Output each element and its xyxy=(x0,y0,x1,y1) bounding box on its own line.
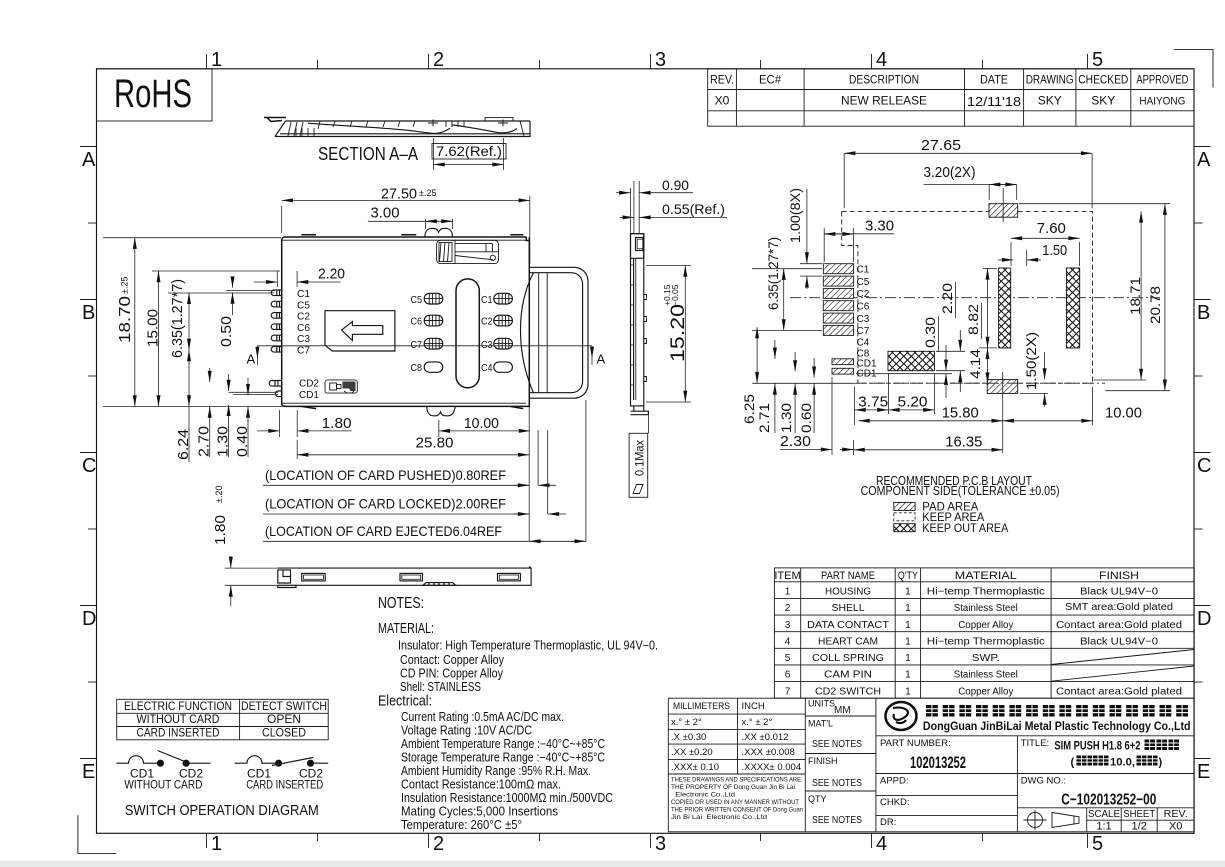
card guide box with arrow xyxy=(325,311,395,351)
scale sheet rev xyxy=(1088,809,1188,833)
svg-text:4: 4 xyxy=(876,833,887,855)
section spring arms xyxy=(308,123,450,133)
grid ticks top xyxy=(207,54,1088,69)
tolerance table texts xyxy=(671,701,801,773)
svg-text:A: A xyxy=(82,149,96,171)
svg-text:DATA CONTACT: DATA CONTACT xyxy=(807,620,889,631)
svg-text:MAT'L: MAT'L xyxy=(808,719,833,729)
svg-text:SKY: SKY xyxy=(1038,94,1062,108)
C pad labels xyxy=(857,265,877,380)
svg-text:SMT area:Gold plated: SMT area:Gold plated xyxy=(1065,602,1173,613)
svg-text:HAIYONG: HAIYONG xyxy=(1139,96,1185,108)
contact pins C1..C7 left xyxy=(229,288,320,401)
svg-text:C: C xyxy=(1197,455,1211,477)
svg-text:C2: C2 xyxy=(857,289,870,300)
border frame xyxy=(97,69,1195,834)
centerline dash-dot horizontal xyxy=(790,297,1160,299)
svg-text:QTY: QTY xyxy=(808,794,827,804)
grid ticks right xyxy=(1194,147,1211,759)
svg-text:MM: MM xyxy=(834,705,851,716)
svg-text:C8: C8 xyxy=(411,362,423,374)
svg-text:15.20: 15.20 xyxy=(668,304,689,362)
svg-text:3: 3 xyxy=(785,620,791,631)
dim 6.24 xyxy=(188,350,190,406)
svg-text:Insulator: High Temperature Th: Insulator: High Temperature Thermoplasti… xyxy=(398,639,658,653)
svg-text:1: 1 xyxy=(905,653,911,664)
svg-text:1.30: 1.30 xyxy=(778,403,794,433)
svg-text:4.14: 4.14 xyxy=(967,349,983,379)
svg-text:7.60: 7.60 xyxy=(1037,220,1066,237)
svg-text:(LOCATION OF CARD PUSHED)0.80R: (LOCATION OF CARD PUSHED)0.80REF xyxy=(265,467,506,483)
svg-text:16.35: 16.35 xyxy=(945,434,982,451)
svg-text:3: 3 xyxy=(655,833,666,855)
svg-text:C2: C2 xyxy=(481,316,493,328)
svg-text:ITEM: ITEM xyxy=(774,570,800,582)
svg-text:(LOCATION OF CARD EJECTED6.04R: (LOCATION OF CARD EJECTED6.04REF xyxy=(265,523,502,539)
RoHS box xyxy=(97,69,213,121)
svg-text:WITHOUT CARD: WITHOUT CARD xyxy=(137,712,220,726)
svg-text:3.00: 3.00 xyxy=(371,205,400,222)
svg-text:COPIED OR USED IN ANY MANNER W: COPIED OR USED IN ANY MANNER WITHOUT xyxy=(671,799,799,806)
svg-text:2.70: 2.70 xyxy=(196,426,213,457)
svg-text:PART NAME: PART NAME xyxy=(821,570,875,582)
top edge weld tabs xyxy=(301,234,523,236)
svg-text:10.0,: 10.0, xyxy=(1110,757,1135,769)
svg-text:±.20: ±.20 xyxy=(214,486,224,503)
svg-text:0.30: 0.30 xyxy=(922,317,938,348)
svg-text:Hi−temp Thermoplastic: Hi−temp Thermoplastic xyxy=(927,587,1045,598)
grid labels left xyxy=(82,149,96,783)
svg-text:UNITS: UNITS xyxy=(808,699,835,709)
side 15.20 dim xyxy=(646,265,691,267)
svg-text:Ambient Humidity Range :95% R.: Ambient Humidity Range :95% R.H. Max. xyxy=(401,764,591,778)
svg-text:C6: C6 xyxy=(297,322,310,334)
svg-text:Black UL94V−0: Black UL94V−0 xyxy=(1080,636,1158,647)
svg-text:1.50(2X): 1.50(2X) xyxy=(1023,332,1039,390)
svg-text:0.1Max: 0.1Max xyxy=(635,440,647,476)
svg-text:E: E xyxy=(82,761,95,783)
svg-text:APPROVED: APPROVED xyxy=(1136,75,1188,87)
units column texts xyxy=(808,699,862,827)
svg-text:Shell: STAINLESS: Shell: STAINLESS xyxy=(400,680,481,694)
center slot xyxy=(456,279,479,388)
dim 18.70 xyxy=(103,237,281,239)
company chinese name (glyph blocks) xyxy=(926,705,1188,717)
svg-text:CD PIN: Copper Alloy: CD PIN: Copper Alloy xyxy=(400,667,504,681)
svg-text:6.35(1.27*7): 6.35(1.27*7) xyxy=(169,279,186,358)
svg-text:PART NUMBER:: PART NUMBER: xyxy=(880,738,951,749)
svg-text:Stainless Steel: Stainless Steel xyxy=(954,670,1018,681)
svg-text:5: 5 xyxy=(785,653,791,664)
svg-text:CAM PIN: CAM PIN xyxy=(824,670,872,681)
corner mark top-right xyxy=(1174,50,1213,88)
svg-text:±.25: ±.25 xyxy=(419,188,436,198)
svg-text:1: 1 xyxy=(211,833,222,855)
svg-text:Hi−temp Thermoplastic: Hi−temp Thermoplastic xyxy=(927,636,1045,647)
svg-text:Stainless Steel: Stainless Steel xyxy=(954,603,1018,614)
svg-text:Current Rating :0.5mA AC/DC ma: Current Rating :0.5mA AC/DC max. xyxy=(401,710,564,724)
svg-text:x.° ± 2°: x.° ± 2° xyxy=(671,717,702,728)
svg-text:COMPONENT SIDE(TOLERANCE ±0.05: COMPONENT SIDE(TOLERANCE ±0.05) xyxy=(861,484,1060,498)
svg-text:D: D xyxy=(82,608,96,630)
svg-text:): ) xyxy=(1159,757,1163,769)
svg-text:A: A xyxy=(247,352,256,367)
svg-text:1: 1 xyxy=(905,636,911,647)
dim 15.00 xyxy=(152,270,280,272)
svg-text:2: 2 xyxy=(785,603,791,614)
svg-text:6.25: 6.25 xyxy=(741,394,757,424)
svg-text:Voltage Rating :10V AC/DC: Voltage Rating :10V AC/DC xyxy=(401,724,532,738)
svg-text:C7: C7 xyxy=(411,339,423,351)
svg-text:C4: C4 xyxy=(857,338,870,349)
svg-text:SCALE: SCALE xyxy=(1088,809,1120,820)
pin labels xyxy=(297,288,310,357)
svg-text:Ambient Temperature Range :−40: Ambient Temperature Range :−40°C~+85°C xyxy=(401,737,605,751)
svg-text:HOUSING: HOUSING xyxy=(825,587,871,598)
svg-text:Copper Alloy: Copper Alloy xyxy=(958,686,1013,697)
svg-text:CLOSED: CLOSED xyxy=(262,726,306,740)
svg-text:MATERIAL:: MATERIAL: xyxy=(378,621,434,637)
section body outline xyxy=(275,121,530,137)
svg-text:CHKD:: CHKD: xyxy=(880,797,910,808)
svg-text:C5: C5 xyxy=(411,294,423,306)
location dimension rows xyxy=(528,406,530,541)
svg-text:C1: C1 xyxy=(297,288,310,300)
svg-text:1.80: 1.80 xyxy=(322,415,352,432)
svg-text:Q'TY: Q'TY xyxy=(898,570,919,582)
gray strip bottom xyxy=(0,861,1225,867)
svg-text:.XXXX± 0.004: .XXXX± 0.004 xyxy=(742,762,802,773)
svg-text:A: A xyxy=(1197,149,1211,171)
svg-text:(: ( xyxy=(1071,757,1075,769)
svg-text:1:1: 1:1 xyxy=(1096,821,1111,833)
svg-text:±.25: ±.25 xyxy=(120,277,130,294)
switch diagram left (open) xyxy=(116,751,210,767)
fine print xyxy=(671,777,803,822)
grid labels right xyxy=(1197,149,1211,783)
grid ticks left xyxy=(80,147,97,759)
dim 0.40 xyxy=(247,378,249,395)
svg-text:0.60: 0.60 xyxy=(798,403,814,433)
svg-text:(LOCATION OF CARD LOCKED)2.00R: (LOCATION OF CARD LOCKED)2.00REF xyxy=(265,496,506,512)
svg-text:Electronic Co.,Ltd: Electronic Co.,Ltd xyxy=(671,792,735,799)
svg-text:2.20: 2.20 xyxy=(318,266,345,283)
svg-text:.XXX± 0.10: .XXX± 0.10 xyxy=(671,762,719,773)
svg-text:10.00: 10.00 xyxy=(1105,405,1142,422)
svg-text:1: 1 xyxy=(905,587,911,598)
svg-text:CHECKED: CHECKED xyxy=(1078,75,1128,87)
keep area dashed boundary xyxy=(842,211,1093,383)
svg-text:3.30: 3.30 xyxy=(865,218,894,235)
section left tail xyxy=(264,118,286,122)
legend xyxy=(894,502,915,510)
svg-text:FINISH: FINISH xyxy=(1099,570,1139,582)
svg-text:2: 2 xyxy=(433,49,444,71)
svg-text:4: 4 xyxy=(876,49,887,71)
contact pads columns xyxy=(424,293,512,372)
svg-text:Contact area:Gold plated: Contact area:Gold plated xyxy=(1056,686,1182,697)
dim 6.35(1.27*7) xyxy=(188,293,190,350)
svg-text:2.20: 2.20 xyxy=(939,283,955,314)
top notch bump xyxy=(425,228,453,237)
svg-text:MILLIMETERS: MILLIMETERS xyxy=(673,701,730,712)
svg-text:3.20(2X): 3.20(2X) xyxy=(924,164,976,181)
svg-text:15.00: 15.00 xyxy=(145,309,162,347)
dim 6.25 xyxy=(756,327,758,383)
svg-text:DR:: DR: xyxy=(880,817,896,828)
svg-text:5: 5 xyxy=(1092,833,1103,855)
svg-text:0.50: 0.50 xyxy=(218,316,235,347)
svg-text:SEE NOTES: SEE NOTES xyxy=(812,778,862,789)
svg-text:B: B xyxy=(82,302,95,324)
svg-text:8.82: 8.82 xyxy=(965,304,981,335)
revision table xyxy=(708,69,1194,126)
svg-text:0.55(Ref.): 0.55(Ref.) xyxy=(662,201,725,217)
svg-text:SHELL: SHELL xyxy=(832,603,865,614)
svg-text:0.40: 0.40 xyxy=(234,426,251,457)
projection symbol xyxy=(1024,810,1080,830)
svg-text:REV.: REV. xyxy=(710,75,734,87)
svg-text:Electrical:: Electrical: xyxy=(378,694,432,710)
dim 0.60 xyxy=(813,358,815,378)
svg-text:C1: C1 xyxy=(481,294,493,306)
C1 row extension lines xyxy=(226,290,274,292)
svg-text:6.35(1.27*7): 6.35(1.27*7) xyxy=(765,237,781,310)
svg-text:1.00(8X): 1.00(8X) xyxy=(787,188,803,243)
svg-text:27.65: 27.65 xyxy=(921,137,961,154)
svg-text:DongGuan JinBiLai Metal Plasti: DongGuan JinBiLai Metal Plastic Technolo… xyxy=(923,719,1191,733)
svg-text:SHEET: SHEET xyxy=(1123,809,1155,820)
svg-text:C−102013252−00: C−102013252−00 xyxy=(1061,792,1156,809)
base line xyxy=(752,382,855,384)
C pads column (8X) xyxy=(823,264,853,374)
svg-text:OPEN: OPEN xyxy=(267,712,301,726)
svg-text:SECTION A–A: SECTION A–A xyxy=(318,144,418,164)
svg-text:DESCRIPTION: DESCRIPTION xyxy=(849,75,919,87)
dim 1.30 xyxy=(228,374,230,391)
svg-text:10.00: 10.00 xyxy=(464,415,499,432)
svg-text:A: A xyxy=(597,352,606,367)
svg-text:2: 2 xyxy=(433,833,444,855)
svg-text:C5: C5 xyxy=(857,277,870,288)
svg-text:Black UL94V−0: Black UL94V−0 xyxy=(1080,587,1158,598)
svg-text:APPD:: APPD: xyxy=(880,776,909,787)
svg-text:Temperature: 260°C ±5°: Temperature: 260°C ±5° xyxy=(401,818,522,832)
dim 2.71 xyxy=(774,340,776,359)
bottom pad 3.20x1.50 xyxy=(987,380,1018,394)
svg-text:Jin Bi Lai Electronic Co.,Ltd: Jin Bi Lai Electronic Co.,Ltd xyxy=(671,814,767,821)
svg-text:NOTES:: NOTES: xyxy=(378,595,424,612)
flatness callout xyxy=(647,415,649,434)
svg-text:RoHS: RoHS xyxy=(114,72,192,116)
top pad 3.20x1.50 xyxy=(989,204,1018,218)
svg-text:NEW RELEASE: NEW RELEASE xyxy=(841,94,927,108)
svg-text:C4: C4 xyxy=(481,362,493,374)
svg-text:.X ±0.30: .X ±0.30 xyxy=(671,732,706,743)
latch spring detail xyxy=(437,240,499,263)
dim 2.70 xyxy=(209,368,211,382)
svg-text:Insulation Resistance:1000MΩ m: Insulation Resistance:1000MΩ min./500VDC xyxy=(401,791,613,805)
svg-text:C: C xyxy=(82,455,96,477)
svg-text:18.71: 18.71 xyxy=(1127,277,1143,315)
svg-text:SIM PUSH H1.8 6+2: SIM PUSH H1.8 6+2 xyxy=(1054,741,1140,753)
svg-text:102013252: 102013252 xyxy=(910,754,966,772)
pad stripes xyxy=(424,293,512,349)
svg-text:MATERIAL: MATERIAL xyxy=(955,570,1017,582)
svg-text:X0: X0 xyxy=(1169,821,1182,833)
svg-text:−0.05: −0.05 xyxy=(670,284,680,306)
svg-text:1/2: 1/2 xyxy=(1132,821,1147,833)
svg-text:SKY: SKY xyxy=(1091,94,1115,108)
svg-text:1: 1 xyxy=(905,670,911,681)
svg-text:DWG NO.:: DWG NO.: xyxy=(1021,776,1066,787)
svg-text:6.24: 6.24 xyxy=(175,429,192,460)
svg-text:4: 4 xyxy=(785,636,791,647)
svg-text:.XXX ±0.008: .XXX ±0.008 xyxy=(742,747,795,758)
svg-text:0.90: 0.90 xyxy=(662,177,689,193)
pad labels xyxy=(411,294,493,374)
svg-text:27.50: 27.50 xyxy=(381,186,417,203)
svg-text:C3: C3 xyxy=(297,333,310,345)
ejected card xyxy=(521,267,589,398)
svg-text:1: 1 xyxy=(905,686,911,697)
svg-text:Storage Temperature Range :−40: Storage Temperature Range :−40°C~+85°C xyxy=(401,751,605,765)
svg-text:1.30: 1.30 xyxy=(215,426,232,457)
keep out rect left xyxy=(888,351,934,370)
svg-text:C6: C6 xyxy=(857,302,870,313)
svg-text:C5: C5 xyxy=(297,299,310,311)
svg-text:DATE: DATE xyxy=(980,75,1008,87)
svg-text:CD2 SWITCH: CD2 SWITCH xyxy=(815,686,881,697)
corner mark bottom-left xyxy=(78,815,116,854)
svg-text:ELECTRIC FUNCTION: ELECTRIC FUNCTION xyxy=(124,699,232,713)
svg-text:Contact: Copper Alloy: Contact: Copper Alloy xyxy=(400,653,505,667)
svg-text:Copper Alloy: Copper Alloy xyxy=(958,620,1013,631)
svg-text:TITLE:: TITLE: xyxy=(1021,738,1050,749)
dim 1.30 pcb xyxy=(794,352,796,371)
svg-text:CD2: CD2 xyxy=(299,378,319,390)
svg-text:3.75: 3.75 xyxy=(858,394,888,411)
svg-text:SEE NOTES: SEE NOTES xyxy=(812,739,862,750)
svg-text:SEE NOTES: SEE NOTES xyxy=(812,815,862,826)
grid labels bottom xyxy=(211,833,1103,855)
keep out bars xyxy=(999,268,1011,348)
CD switch detail xyxy=(325,380,357,393)
svg-text:1.50: 1.50 xyxy=(1042,242,1067,259)
svg-text:18.70: 18.70 xyxy=(117,296,134,343)
card direction arrow xyxy=(342,322,383,341)
svg-text:B: B xyxy=(1197,302,1210,324)
svg-text:7: 7 xyxy=(785,686,791,697)
svg-text:THESE DRAWINGS AND SPECIFICATI: THESE DRAWINGS AND SPECIFICATIONS ARE xyxy=(671,777,802,784)
svg-text:25.80: 25.80 xyxy=(416,435,454,452)
svg-text:HEART CAM: HEART CAM xyxy=(818,636,878,647)
svg-text:C1: C1 xyxy=(857,265,870,276)
svg-text:DRAWING: DRAWING xyxy=(1026,75,1074,87)
grid labels top xyxy=(211,49,1103,71)
svg-text:.XX ±0.012: .XX ±0.012 xyxy=(742,732,789,743)
svg-text:5: 5 xyxy=(1092,49,1103,71)
svg-text:1: 1 xyxy=(905,620,911,631)
svg-text:D: D xyxy=(1197,608,1211,630)
svg-text:x.° ± 2°: x.° ± 2° xyxy=(742,717,773,728)
section line A-A xyxy=(257,345,592,347)
svg-text:7.62(Ref.): 7.62(Ref.) xyxy=(436,144,502,159)
svg-text:THE PRIOR WRITTEN CONSENT OF D: THE PRIOR WRITTEN CONSENT OF Dong Guan xyxy=(671,807,803,814)
svg-text:2.30: 2.30 xyxy=(780,433,811,450)
svg-text:1.80: 1.80 xyxy=(212,515,229,545)
svg-text:CARD INSERTED: CARD INSERTED xyxy=(246,778,323,792)
svg-text:1: 1 xyxy=(211,49,222,71)
grid ticks bottom xyxy=(207,833,1088,848)
svg-text:E: E xyxy=(1197,761,1210,783)
svg-text:Contact Resistance:100mΩ max.: Contact Resistance:100mΩ max. xyxy=(401,778,561,792)
svg-text:Mating Cycles:5,000 Insertions: Mating Cycles:5,000 Insertions xyxy=(401,805,558,819)
svg-text:CARD INSERTED: CARD INSERTED xyxy=(137,726,220,740)
svg-text:20.78: 20.78 xyxy=(1147,286,1163,324)
svg-text:KEEP OUT AREA: KEEP OUT AREA xyxy=(922,523,1008,535)
section hatch ticks xyxy=(288,121,524,136)
svg-text:Contact area:Gold plated: Contact area:Gold plated xyxy=(1056,620,1182,631)
svg-text:1: 1 xyxy=(785,587,791,598)
svg-text:C3: C3 xyxy=(857,314,870,325)
section top-right small plate xyxy=(485,118,513,121)
svg-text:C7: C7 xyxy=(857,326,870,337)
bottom notch tab xyxy=(427,406,456,415)
svg-text:EC#: EC# xyxy=(759,75,782,87)
svg-text:C7: C7 xyxy=(297,345,310,357)
svg-text:COLL SPRING: COLL SPRING xyxy=(812,653,884,664)
body outline xyxy=(282,237,530,406)
svg-text:2.71: 2.71 xyxy=(756,403,772,433)
side body xyxy=(631,234,649,415)
svg-text:FINISH: FINISH xyxy=(808,756,838,766)
switch diagram right (closed) xyxy=(235,756,329,766)
svg-text:CD1: CD1 xyxy=(299,389,319,401)
svg-text:.XX ±0.20: .XX ±0.20 xyxy=(671,747,713,758)
svg-text:C3: C3 xyxy=(481,339,493,351)
svg-text:SWITCH OPERATION DIAGRAM: SWITCH OPERATION DIAGRAM xyxy=(125,803,319,819)
svg-text:THE PROPERTY OF Dong Guan Jin: THE PROPERTY OF Dong Guan Jin Bi Lai xyxy=(671,784,795,791)
svg-text:DETECT SWITCH: DETECT SWITCH xyxy=(241,699,327,713)
company logo xyxy=(886,702,917,730)
svg-text:12/11'18: 12/11'18 xyxy=(967,94,1021,109)
svg-text:15.80: 15.80 xyxy=(942,405,979,422)
svg-text:5.20: 5.20 xyxy=(898,394,928,411)
svg-text:INCH: INCH xyxy=(742,701,765,712)
svg-text:SWP.: SWP. xyxy=(972,653,1000,664)
svg-text:3: 3 xyxy=(655,49,666,71)
svg-text:C2: C2 xyxy=(297,311,310,323)
svg-text:1: 1 xyxy=(905,603,911,614)
svg-text:WITHOUT CARD: WITHOUT CARD xyxy=(124,778,202,792)
svg-text:X0: X0 xyxy=(715,94,730,108)
svg-text:C6: C6 xyxy=(411,316,423,328)
svg-text:REV.: REV. xyxy=(1164,809,1188,820)
dim 7.62(Ref.) boxed xyxy=(432,144,506,160)
CD2 CD1 pins xyxy=(269,381,282,387)
svg-text:6: 6 xyxy=(785,670,791,681)
